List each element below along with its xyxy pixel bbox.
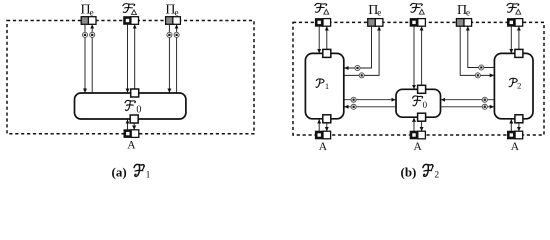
connector odot on upper Pi_e2 elbow (b): [479, 65, 484, 70]
port on P2 top edge (b): [515, 49, 523, 57]
caption (b) F2: [401, 164, 440, 180]
party box P1 (b): [305, 53, 343, 118]
label Pi_e 1 (b): [368, 3, 381, 18]
port F_triangle 2 (b): [410, 18, 426, 27]
functionality box F0 (a): [75, 93, 186, 119]
svg-text:0: 0: [136, 105, 141, 116]
wire up from F0 to Pi_e left (a): [91, 25, 93, 93]
wire up from F0 top port to port3 (b): [421, 27, 423, 90]
port Pi_e left (a): [81, 17, 96, 25]
port Pi_e 1 (b): [368, 19, 383, 27]
wire up from A port to F0 (a): [127, 120, 129, 130]
connector odot on P2-to-F0 wire (b): [482, 97, 487, 102]
wire up from F0 top port to F_triangle port (a): [134, 25, 136, 93]
svg-text:2: 2: [517, 81, 521, 91]
port on P1 bottom edge (b): [323, 115, 331, 123]
label F0 (b): [413, 96, 428, 110]
wire up from P1 top port to port1 (b): [326, 27, 328, 54]
wire up from A2 port to F0 (b): [413, 118, 415, 132]
dashed boundary box (a): [7, 21, 254, 134]
connector odot pair on Pi_e right wires (a): [167, 32, 179, 37]
wire up from P2 top port to port5 (b): [518, 27, 520, 54]
svg-text:A: A: [414, 141, 423, 153]
port Pi_e right (a): [166, 17, 181, 25]
svg-text:1: 1: [146, 171, 151, 181]
wire up from A3 port to P2 (b): [510, 119, 512, 131]
svg-text:A: A: [319, 141, 328, 153]
wire elbow from P1 right edge up to Pi_e1 (b): [344, 27, 379, 76]
svg-text:A: A: [511, 141, 520, 153]
connector odot pair on Pi_e left wires (a): [82, 32, 94, 37]
wire up from A1 port to P1 (b): [318, 119, 320, 131]
port on P2 bottom edge (b): [515, 115, 523, 123]
svg-text:e: e: [466, 8, 470, 18]
label Pi_e left (a): [81, 2, 94, 17]
wire up from F0 to Pi_e right (a): [176, 25, 178, 93]
svg-text:e: e: [377, 8, 381, 18]
port A2 (b): [410, 131, 426, 140]
wire elbow from Pi_e2 down-right into P2 left edge (b): [460, 26, 494, 75]
label F0 (a): [125, 100, 141, 115]
party box P2 (b): [494, 53, 533, 118]
svg-text:e: e: [175, 7, 179, 17]
label F_triangle 3 (b): [507, 3, 521, 14]
wire down from port1 to P1 (b): [318, 26, 320, 53]
connector odot on lower Pi_e2 elbow (b): [475, 73, 480, 78]
wire from F0 left edge into P1 right edge (b): [344, 106, 396, 108]
port on F0 top edge (a): [131, 89, 139, 97]
port on F0 top edge (b): [418, 85, 426, 93]
connector odot on lower Pi_e1 elbow (b): [359, 73, 364, 78]
port on P1 top edge (b): [323, 49, 331, 57]
port F_triangle (a): [123, 16, 138, 25]
port on F0 bottom edge (a): [130, 115, 138, 123]
label F_triangle 2 (b): [411, 3, 425, 14]
svg-text:2: 2: [434, 171, 439, 181]
svg-text:0: 0: [423, 100, 428, 110]
wire from P1 right edge into F0 left edge (b): [344, 99, 396, 101]
caption (a) F1: [112, 164, 151, 180]
wire down from Pi_e right to F0 (a): [168, 24, 170, 93]
wire elbow from P2 left edge up to Pi_e2 (b): [468, 27, 495, 68]
wire from F0 right edge into P2 left edge (b): [441, 106, 494, 108]
port A3 (b): [507, 131, 523, 140]
port F_triangle 3 (b): [507, 18, 523, 27]
svg-text:1: 1: [325, 81, 329, 91]
functionality box F0 (b): [396, 89, 441, 117]
connector odot on upper Pi_e1 elbow (b): [355, 65, 360, 70]
wire from P2 left edge into F0 right edge (b): [441, 99, 494, 101]
wire down from P1 bottom port to A1 port (b): [326, 123, 328, 131]
svg-text:A: A: [127, 140, 136, 152]
port Pi_e 2 (b): [456, 19, 471, 27]
wire elbow from Pi_e1 down-left into P1 right edge (b): [344, 26, 371, 68]
label Pi_e right (a): [165, 2, 178, 17]
connector odot on F0-to-P2 wire (b): [482, 104, 487, 109]
connector odot on F0-to-P1 wire (b): [351, 104, 356, 109]
port A (a): [124, 129, 139, 138]
connector odot on P1-to-F0 wire (b): [351, 97, 356, 102]
svg-text:e: e: [90, 7, 94, 17]
label Pi_e 2 (b): [457, 3, 470, 18]
port A1 (b): [315, 131, 331, 140]
label P2 (b): [509, 78, 521, 90]
svg-text:(b): (b): [401, 164, 417, 179]
dashed boundary box (b): [293, 22, 544, 135]
svg-text:(a): (a): [112, 164, 127, 179]
port on F0 bottom edge (b): [418, 113, 426, 121]
port F_triangle 1 (b): [315, 18, 331, 27]
wire down from Pi_e left to F0 (a): [84, 24, 86, 93]
wire down from F_triangle port to F0 (a): [127, 24, 129, 93]
label F_triangle (a): [123, 4, 137, 15]
label F_triangle 1 (b): [315, 3, 329, 14]
wire down from F0 bottom port to A2 port (b): [421, 121, 423, 131]
wire down from P2 bottom port to A3 port (b): [518, 123, 520, 131]
wire down from F0 bottom port to A port (a): [133, 123, 135, 130]
label P1 (b): [316, 79, 329, 91]
wire down from port3 to F0 (b): [413, 26, 415, 89]
wire down from port5 to P2 (b): [510, 26, 512, 53]
